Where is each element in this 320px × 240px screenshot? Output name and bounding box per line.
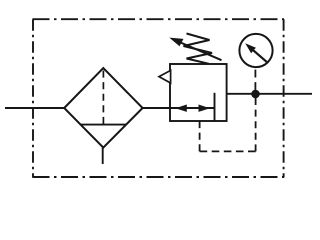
filter F1 separator chord <box>80 124 126 126</box>
pressure gauge G1 needle shaft <box>252 49 268 63</box>
filter F1 drain line <box>102 148 104 164</box>
pilot line: dashed bottom run <box>200 150 256 152</box>
wire: filter to regulator <box>143 107 215 109</box>
regulator R1 left flow arrowhead <box>175 105 187 112</box>
wire: inlet line (port 1 to filter) <box>5 107 65 109</box>
enclosure left border (chain line) <box>32 19 34 177</box>
filter F1 diamond body <box>64 68 142 148</box>
wire: regulator outlet line to port 2 <box>227 93 312 95</box>
regulator R1 adjustment arrowhead <box>169 38 183 47</box>
pilot line: dashed riser to outlet junction <box>255 98 257 151</box>
enclosure right border (chain line) <box>283 19 285 177</box>
gauge G1 dashed connector <box>254 70 256 90</box>
enclosure bottom border (chain line) <box>33 176 285 178</box>
enclosure top border (chain line) <box>33 18 285 20</box>
regulator R1 body box <box>170 64 227 121</box>
pressure gauge G1 dial circle <box>239 34 272 67</box>
regulator R1 adjustment arrow shaft <box>181 43 222 61</box>
junction node on outlet line <box>251 90 260 99</box>
regulator R1 right flow arrowhead <box>199 105 211 112</box>
regulator R1 inner seat line <box>214 93 216 121</box>
pressure gauge G1 needle arrowhead <box>245 43 256 53</box>
regulator R1 relief vent triangle <box>159 70 171 83</box>
regulator R1 setting spring <box>184 34 213 64</box>
pilot line: dashed drop from regulator bottom <box>199 121 201 151</box>
filter F1 dashed centerline <box>102 71 104 125</box>
